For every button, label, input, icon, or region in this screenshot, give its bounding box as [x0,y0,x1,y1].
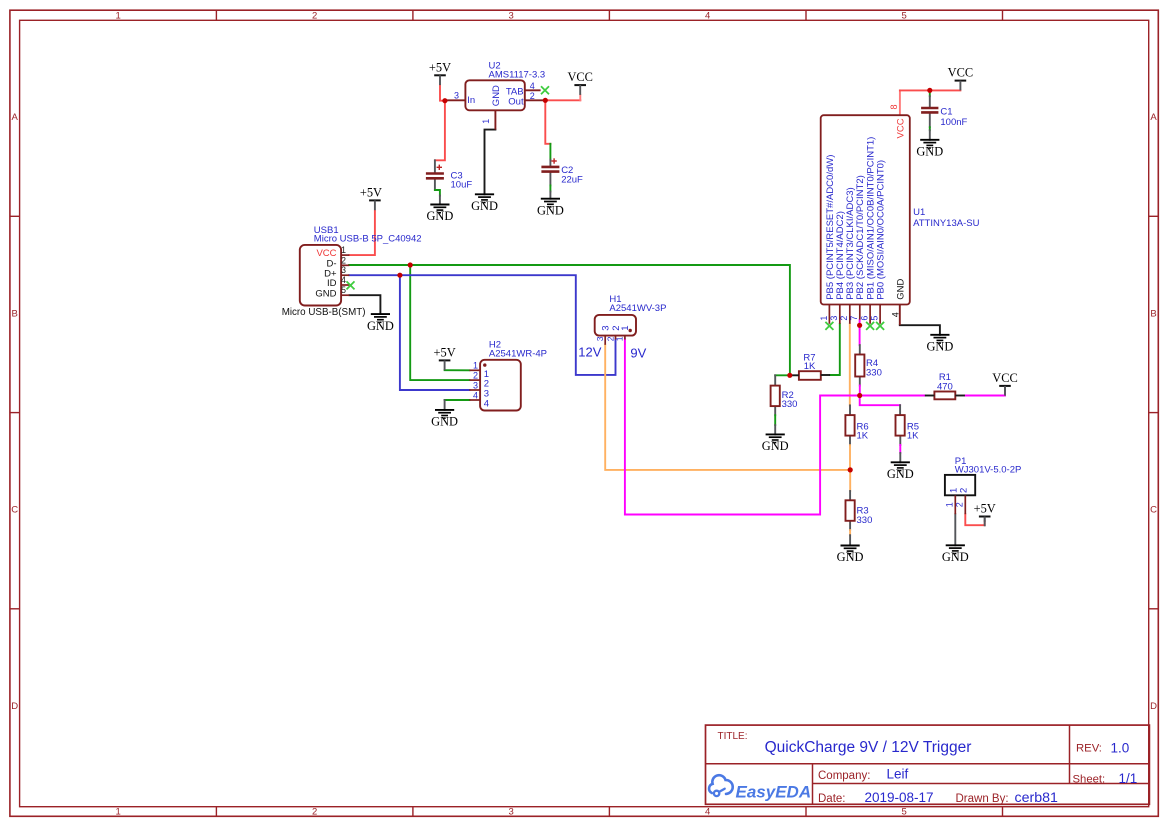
wire USB1 VCC pin to +5V [350,211,375,255]
power symbol +5V at P1 [974,502,996,527]
frame row letters left [11,112,18,712]
wire C2 top lead [549,160,551,166]
svg-text:Drawn By:: Drawn By: [956,793,1009,805]
EasyEDA logo [709,775,733,796]
svg-text:3: 3 [829,316,839,321]
wire C2 bottom to GND [549,173,551,185]
node R6 / R3 / H1 pin3 [848,467,853,472]
power symbol +5V at H2 [434,346,456,371]
wire R1 to VCC [965,391,1005,396]
svg-text:GND: GND [491,85,502,106]
svg-text:PB0 (MOSI/AIN0/OC0A/PCINT0): PB0 (MOSI/AIN0/OC0A/PCINT0) [876,160,887,300]
wire R7 to U1 pin3 [830,324,840,375]
MCU U1 ATTINY13A-SU [819,104,980,325]
svg-text:1K: 1K [857,430,869,441]
svg-text:Micro USB-B 5P_C40942: Micro USB-B 5P_C40942 [314,234,422,245]
frame row ticks left [10,216,20,609]
ground below P1 pin1 [942,545,969,564]
wire magenta junction to R5 [860,396,900,406]
ground below R3 [837,546,864,565]
svg-text:+5V: +5V [429,60,451,74]
ground below U2 pin1 [471,194,498,213]
svg-text:2: 2 [839,316,849,321]
ground below C3 [426,205,453,224]
node +5V / U2 In / C3 [442,98,447,103]
wire C1 to GND [929,96,931,106]
svg-text:1K: 1K [804,361,816,372]
wire U1 pin7 to R4 [859,320,861,345]
svg-text:2: 2 [530,91,535,101]
svg-text:5: 5 [902,11,907,22]
svg-text:4: 4 [484,399,489,410]
resistor R1 labels [937,372,953,392]
svg-text:12V: 12V [578,345,601,360]
svg-text:B: B [12,308,18,319]
svg-text:22uF: 22uF [561,175,583,186]
no-connect X on U2 TAB pin [541,86,549,94]
wire +5V to U2 In and C3 [440,85,447,101]
svg-text:GND: GND [926,340,953,354]
wire R5 to GND [899,436,901,446]
svg-text:B: B [1150,308,1156,319]
svg-text:2: 2 [954,502,964,507]
svg-text:GND: GND [896,279,907,300]
svg-text:1: 1 [116,807,121,818]
power symbol +5V at U2 input [429,60,451,85]
resistor R1 body [934,392,955,400]
node U2 Out / VCC / C2 [543,98,548,103]
resistor R7 leads [790,374,830,376]
svg-text:330: 330 [782,399,798,410]
node R4 / R1 / R5 / H1 pin1 [857,393,862,398]
svg-text:+5V: +5V [974,502,996,516]
svg-text:3: 3 [341,265,346,275]
svg-text:VCC: VCC [948,66,973,80]
connector H1 A2541WV-3P [595,294,667,345]
svg-text:2: 2 [312,807,317,818]
power symbol VCC at R1 [992,371,1017,396]
svg-text:2019-08-17: 2019-08-17 [865,790,934,805]
svg-text:GND: GND [887,467,914,481]
power symbol VCC at U1 [948,66,973,91]
svg-text:Out: Out [508,96,524,107]
svg-text:C: C [1150,505,1157,516]
resistor R7 labels [803,352,816,371]
ground below C1 [916,140,943,159]
svg-text:PB5 (PCINT5/RESET#/ADC0/dW): PB5 (PCINT5/RESET#/ADC0/dW) [825,155,836,300]
svg-text:1/1: 1/1 [1119,771,1138,786]
svg-text:GND: GND [837,550,864,564]
wire R3 to GND [849,521,851,530]
svg-text:D: D [11,701,18,712]
capacitor C1 100nF [921,106,967,128]
frame column ticks top [216,10,1002,20]
frame row letters right [1150,112,1157,712]
svg-text:10uF: 10uF [451,180,473,191]
capacitor C3 10uF [426,165,472,191]
svg-text:100nF: 100nF [940,117,967,128]
svg-text:In: In [467,95,475,106]
resistor R5 labels [907,421,919,441]
svg-text:5: 5 [902,807,907,818]
wire segment C2 bottom green [549,185,551,191]
frame column ticks bottom [216,807,1002,817]
resistor R7 body [799,371,821,380]
wire U2 Out to VCC and C2 [545,99,580,101]
wire U2 GND pin to GND [485,130,496,195]
wire net D+ branch to H2 pin3 [400,275,470,390]
svg-text:A: A [1150,112,1157,123]
ground below H2 pin4 [431,410,458,429]
svg-text:U1: U1 [913,207,925,218]
svg-text:ATTINY13A-SU: ATTINY13A-SU [913,218,979,229]
svg-text:VCC: VCC [992,371,1017,385]
connector USB1 Micro USB-B [282,225,422,318]
svg-text:3: 3 [595,336,605,341]
ground below R5 [887,462,914,481]
svg-text:C: C [11,505,18,516]
resistor R3 labels [857,506,873,526]
wire P1 pin1 to GND [954,514,956,545]
svg-text:GND: GND [916,145,943,159]
resistor R3 body [846,500,855,521]
wire net D+ from USB1 to H1 pin2 [349,275,615,375]
resistor R5 body [896,415,905,436]
wire net D- from USB1 to R7 junction [349,265,790,375]
wire magenta junction to R1 [860,395,925,397]
wire orange junction to H1 pin3 [605,345,850,470]
node U1 pin7 [857,323,862,328]
svg-text:4: 4 [891,312,901,317]
resistor R6 labels [857,421,869,441]
wire segment C1 top green [929,92,931,96]
wire segment C1 bottom green [929,127,931,130]
svg-text:4: 4 [473,390,478,400]
svg-text:4: 4 [705,11,710,22]
svg-text:AMS1117-3.3: AMS1117-3.3 [489,70,546,81]
svg-text:D: D [1150,701,1157,712]
wire H2 pin4 to GND [445,399,470,401]
svg-text:A: A [12,112,19,123]
svg-text:Micro USB-B(SMT): Micro USB-B(SMT) [282,307,366,318]
svg-text:REV:: REV: [1076,743,1102,755]
svg-text:1: 1 [615,336,625,341]
wire R2 bottom to GND [774,406,776,416]
svg-text:cerb81: cerb81 [1015,790,1058,806]
resistor R1 leads [925,395,965,397]
capacitor C2 22uF [541,158,583,185]
svg-text:A2541WR-4P: A2541WR-4P [489,349,547,360]
wire magenta junction to H1 pin1 [625,340,860,515]
svg-text:8: 8 [889,104,899,109]
connector P1 WJ301V-5.0-2P [944,456,1021,514]
svg-text:330: 330 [857,515,873,526]
regulator U2 AMS1117-3.3 [447,61,546,130]
svg-text:GND: GND [315,288,336,299]
svg-text:C1: C1 [940,106,952,117]
svg-text:1: 1 [944,502,954,507]
ground below USB1 pin5 [367,314,394,333]
svg-text:3: 3 [473,380,478,390]
wire R6 to orange junction [849,436,851,446]
svg-text:4: 4 [530,81,535,91]
ground below R2 [762,434,789,453]
svg-text:4: 4 [341,275,346,285]
node D- branch [408,262,413,267]
svg-text:1: 1 [819,316,829,321]
svg-text:Sheet:: Sheet: [1073,774,1106,786]
svg-text:VCC: VCC [567,70,592,84]
frame column numbers top [116,11,907,22]
svg-text:QuickCharge 9V / 12V Trigger: QuickCharge 9V / 12V Trigger [765,739,972,756]
svg-text:2: 2 [473,370,478,380]
svg-text:5: 5 [870,316,880,321]
wire C3 top lead [434,160,436,172]
wire +5V to H2 pin1 [445,369,470,371]
power symbol VCC at U2 output [567,70,592,95]
svg-text:+5V: +5V [434,346,456,360]
wire segment C2 top green [549,144,551,160]
node D+ branch [397,273,402,278]
svg-text:+5V: +5V [360,186,382,200]
svg-text:GND: GND [426,209,453,223]
svg-text:1: 1 [116,11,121,22]
node VCC / C1 [927,88,932,93]
wire R7 junction to R2 [775,374,790,376]
svg-text:EasyEDA: EasyEDA [736,783,812,802]
wire net D- branch to H2 pin2 [410,265,469,380]
svg-text:9V: 9V [630,346,646,361]
wire orange junction to R3 [849,470,851,491]
svg-text:1: 1 [473,361,478,371]
wire U1 pin2 to R6 orange [849,324,851,406]
node D- / R2 / R7 [787,373,792,378]
svg-text:3: 3 [454,91,459,101]
wire U1 pin4 to GND [900,325,940,335]
svg-text:Date:: Date: [818,793,846,805]
no-connect X on U1 pin1 [825,322,833,330]
wire segment C3 bottom green [435,190,440,196]
svg-text:TITLE:: TITLE: [718,731,748,742]
svg-text:Company:: Company: [818,770,870,782]
svg-text:GND: GND [537,203,564,217]
svg-text:GND: GND [942,550,969,564]
wire C3 bottom to GND [434,179,436,190]
svg-text:3: 3 [508,807,513,818]
wire R4 to magenta junction [859,377,861,386]
svg-text:A2541WV-3P: A2541WV-3P [609,303,666,314]
svg-text:GND: GND [367,319,394,333]
svg-text:3: 3 [508,11,513,22]
resistor R4 body [855,355,864,377]
svg-text:Leif: Leif [887,767,909,782]
svg-text:2: 2 [341,255,346,265]
svg-text:1K: 1K [907,430,919,441]
svg-text:6: 6 [860,316,870,321]
resistor R2 labels [782,390,798,410]
wire P1 pin2 to +5V [965,514,984,525]
svg-text:GND: GND [762,439,789,453]
resistor R4 labels [866,358,882,379]
resistor R2 body [771,386,780,407]
no-connect X on U1 pin6 [866,322,874,330]
svg-text:470: 470 [937,381,953,392]
svg-text:VCC: VCC [895,118,906,138]
wire segment R2 bottom green [774,415,776,425]
svg-text:2: 2 [958,488,969,493]
svg-text:GND: GND [471,199,498,213]
svg-text:GND: GND [431,415,458,429]
svg-text:330: 330 [866,368,882,379]
wire VCC to U1 pin 8 and C1 [899,90,901,114]
svg-text:4: 4 [705,807,710,818]
svg-text:1.0: 1.0 [1111,741,1130,756]
svg-text:1: 1 [341,245,346,255]
svg-text:1: 1 [481,119,491,124]
ground below C2 [537,199,564,218]
connector H2 A2541WR-4P [469,340,547,411]
svg-text:5: 5 [341,285,346,295]
frame row ticks right [1149,216,1159,609]
wire USB1 GND pin to GND [350,295,381,314]
no-connect X on U1 pin5 [876,322,884,330]
frame column numbers bottom [116,807,907,818]
title block [706,725,1150,804]
svg-text:2: 2 [312,11,317,22]
power symbol +5V at USB1 [360,186,382,211]
svg-text:7: 7 [849,316,859,321]
svg-text:WJ301V-5.0-2P: WJ301V-5.0-2P [955,464,1022,475]
no-connect X on USB1 ID pin [347,281,355,289]
ground below U1 pin4 [926,335,953,354]
resistor R6 body [845,415,854,436]
